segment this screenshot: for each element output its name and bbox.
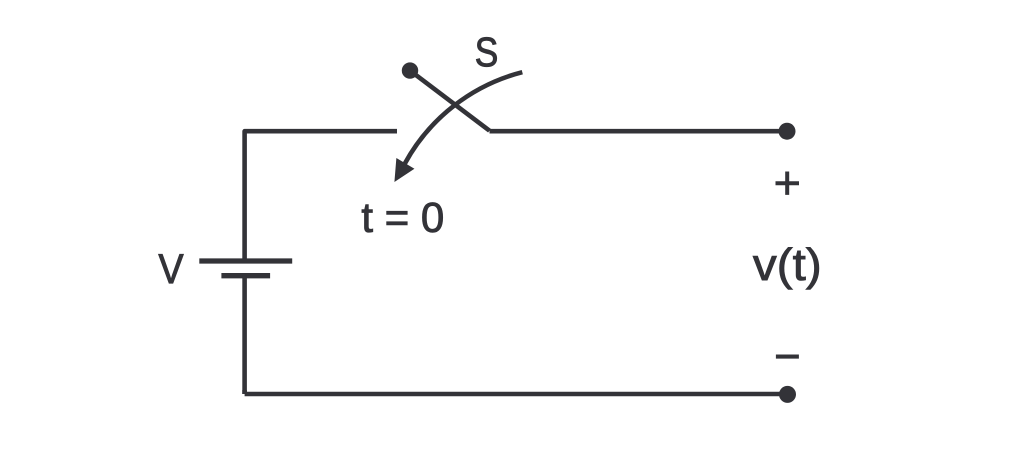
switch S pole dot xyxy=(402,62,418,78)
label + (plus) xyxy=(776,172,800,195)
wire: left vertical upper + top horizontal to switch pole xyxy=(245,131,397,259)
battery top plate (positive, long) xyxy=(199,258,292,263)
switch motion arc xyxy=(405,72,523,163)
label t = 0 xyxy=(362,203,443,233)
wire: right horizontal from switch throw to top-right terminal xyxy=(490,129,788,134)
wire: bottom horizontal to bottom-right terminal xyxy=(245,390,788,394)
terminal dot bottom right xyxy=(779,386,796,403)
label S xyxy=(476,37,496,66)
terminal dot top right xyxy=(779,123,796,140)
label - (minus) xyxy=(776,355,799,359)
wire: left vertical lower from battery to bottom wire xyxy=(242,276,247,394)
battery bottom plate (negative, short) xyxy=(221,273,270,278)
label v(t) xyxy=(753,247,819,289)
label V xyxy=(159,254,184,283)
switch S blade (dot to right wire bend) xyxy=(410,71,490,131)
switch motion arrowhead xyxy=(395,159,414,181)
